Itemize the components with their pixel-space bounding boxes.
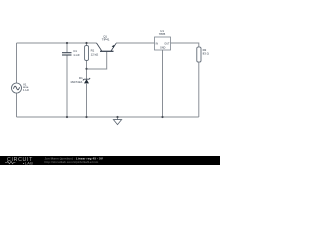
svg-text:12 kΩ: 12 kΩ	[91, 52, 99, 56]
svg-text:83 Ω: 83 Ω	[203, 52, 210, 56]
svg-text:1 mF: 1 mF	[73, 53, 80, 57]
svg-text:http://circuitlab.com/c/pkbn9a: http://circuitlab.com/c/pkbn9af1ezmm	[45, 160, 99, 164]
svg-text:▪LAB: ▪LAB	[23, 161, 33, 165]
svg-text:OUT: OUT	[164, 42, 170, 45]
svg-text:GND: GND	[160, 47, 166, 50]
svg-text:1 Hz: 1 Hz	[23, 88, 29, 92]
svg-text:1N4742A: 1N4742A	[70, 80, 82, 84]
svg-text:TIP41: TIP41	[102, 37, 110, 41]
svg-text:IN: IN	[156, 42, 159, 45]
svg-text:7805: 7805	[159, 32, 166, 36]
